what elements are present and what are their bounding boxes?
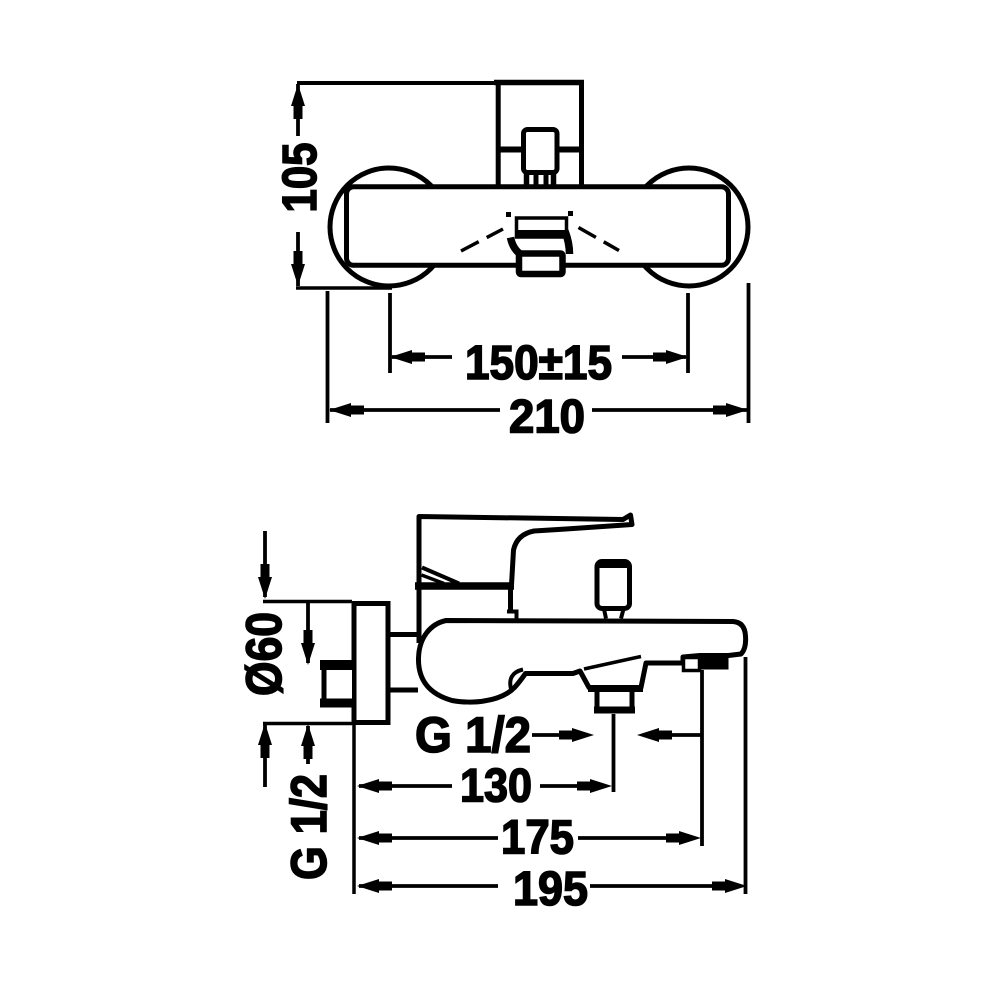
svg-text:105: 105 [274,143,327,213]
svg-text:150±15: 150±15 [465,337,612,390]
svg-text:G 1/2: G 1/2 [415,707,531,763]
svg-text:210: 210 [509,390,585,443]
svg-text:130: 130 [460,760,532,813]
svg-text:Ø60: Ø60 [236,612,292,696]
svg-text:195: 195 [513,863,588,916]
svg-text:G 1/2: G 1/2 [281,774,337,880]
svg-text:175: 175 [501,812,574,865]
